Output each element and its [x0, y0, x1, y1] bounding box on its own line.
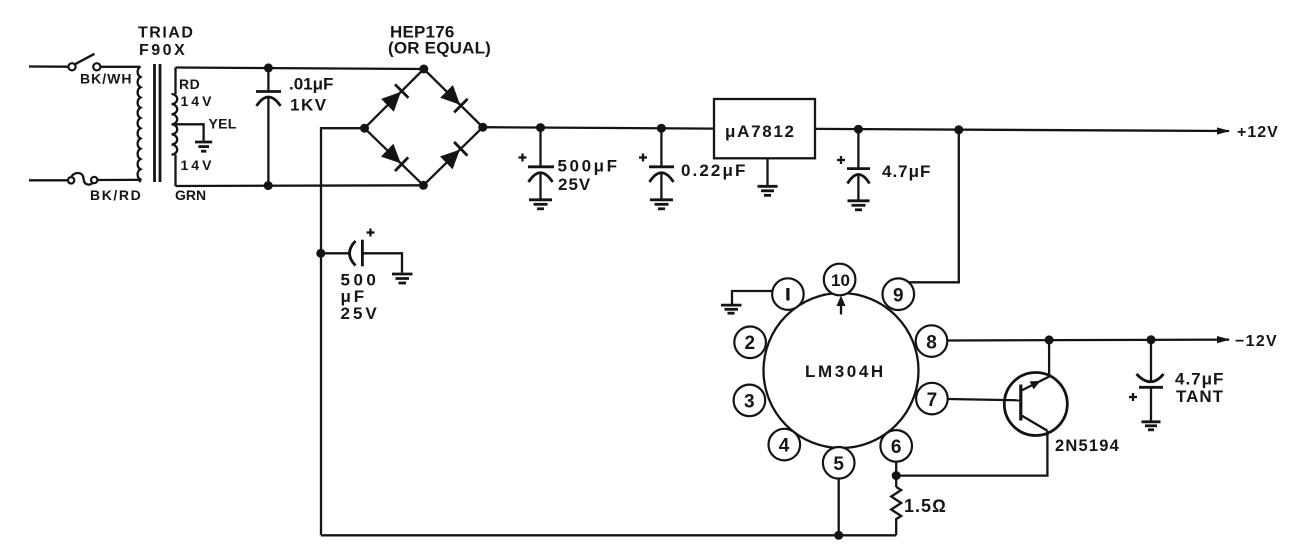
svg-text:BK/RD: BK/RD	[90, 187, 142, 203]
pin 2 circle	[734, 327, 766, 359]
transformer T1 primary winding	[138, 67, 141, 182]
capacitor C6 straight plate	[1139, 386, 1163, 389]
transformer T1 secondary top lead	[174, 68, 176, 95]
bridge edge top-right	[424, 69, 483, 127]
wire to C5	[321, 252, 350, 254]
capacitor C1 .01uF top stem	[267, 68, 269, 91]
capacitor C4 top plate	[847, 167, 870, 170]
pin 6 circle	[880, 430, 912, 462]
ground pin 1	[721, 305, 742, 313]
svg-text:2: 2	[745, 333, 756, 354]
svg-text:8: 8	[926, 332, 937, 353]
bridge node right	[478, 123, 487, 132]
fuse F1 element	[71, 173, 94, 185]
wire AC line top	[29, 65, 69, 67]
fuse F1 right bead	[91, 177, 97, 183]
junction dot C1 bottom	[264, 181, 273, 190]
svg-text:.01μF: .01μF	[289, 75, 333, 94]
capacitor C1 bottom stem	[267, 97, 269, 186]
capacitor C2 top stem	[539, 128, 541, 166]
regulator U1 uA7812 box	[714, 99, 815, 158]
svg-text:μA7812: μA7812	[725, 122, 796, 141]
svg-text:RD: RD	[179, 76, 200, 92]
junction dot C5	[316, 249, 325, 258]
wire pin 1 to ground	[732, 291, 773, 304]
svg-text:1KV: 1KV	[290, 96, 328, 115]
wire C5 to ground	[362, 253, 402, 272]
IC U2 LM304H body	[764, 293, 919, 448]
capacitor C2 bottom stem	[539, 173, 541, 199]
junction dot C4	[854, 125, 863, 134]
switch S1 right contact	[93, 63, 100, 70]
svg-text:14V: 14V	[181, 157, 215, 173]
svg-text:LM304H: LM304H	[805, 362, 886, 381]
capacitor C4 bottom stem	[857, 175, 859, 200]
capacitor C3 polarity +	[639, 154, 647, 162]
junction dot C3	[657, 124, 666, 133]
svg-text:0.22μF: 0.22μF	[681, 161, 747, 180]
wire fuse to transformer	[97, 179, 140, 181]
svg-text:4.7μF: 4.7μF	[882, 162, 931, 181]
ground C3	[650, 200, 673, 209]
wire drop to pin 9	[909, 130, 959, 282]
svg-text:500μF: 500μF	[558, 157, 620, 176]
ground C2	[529, 200, 552, 209]
junction dot C1 top	[264, 63, 273, 72]
bridge node top	[419, 65, 428, 74]
diode D4 (bottom-to-right)	[440, 142, 467, 169]
junction dot C6	[1147, 335, 1156, 344]
wire junction to Q1 emitter	[1048, 340, 1050, 376]
svg-text:BK/WH: BK/WH	[80, 71, 132, 87]
wire center tap	[175, 124, 204, 141]
fuse F1 left bead	[68, 177, 74, 183]
svg-text:10: 10	[831, 271, 850, 290]
capacitor C4 curved plate	[848, 175, 870, 184]
svg-text:4: 4	[779, 436, 790, 457]
capacitor C2 top plate	[528, 165, 554, 168]
capacitor C3 bottom stem	[660, 173, 662, 199]
svg-text:GRN: GRN	[175, 187, 206, 203]
transistor Q1 collector diagonal	[1022, 416, 1048, 431]
capacitor C1 top plate	[256, 90, 281, 93]
ground C6	[1142, 422, 1161, 430]
pin 3 circle	[734, 385, 766, 417]
wire secondary top to bridge top node	[176, 68, 424, 70]
pin 9 circle	[883, 278, 915, 310]
capacitor C1 curved plate	[257, 97, 281, 106]
bridge node bottom	[419, 181, 428, 190]
diode D1 (left-to-top)	[381, 84, 408, 111]
svg-text:25V: 25V	[558, 175, 591, 194]
transformer T1 secondary bottom lead	[174, 155, 176, 187]
pin 10 circle	[824, 264, 856, 296]
pin 1 number	[786, 288, 789, 301]
wire pin 6 down	[895, 462, 897, 487]
junction dot pin 6 node	[892, 471, 901, 480]
transistor Q1 base bar	[1019, 385, 1022, 421]
svg-text:4.7μF: 4.7μF	[1175, 370, 1224, 389]
capacitor C5 polarity +	[367, 229, 375, 237]
capacitor C3 curved plate	[650, 173, 674, 182]
diode D3 (left-to-bottom)	[381, 144, 408, 171]
capacitor C5 curved plate	[350, 241, 356, 266]
svg-text:9: 9	[893, 285, 904, 306]
svg-text:6: 6	[891, 437, 902, 458]
capacitor C6 bottom stem	[1150, 387, 1152, 421]
wire bottom rail	[321, 534, 896, 536]
transistor Q1 body circle	[1004, 373, 1067, 436]
pin 8 circle	[916, 325, 948, 357]
pin 10 arrow	[837, 296, 846, 315]
resistor R1 1.5 ohm zigzag	[891, 487, 901, 535]
svg-text:3: 3	[744, 392, 755, 413]
transistor Q1 emitter diagonal with arrow	[1022, 376, 1050, 390]
transformer core line 2	[159, 64, 162, 182]
wire +12V rail left of regulator	[483, 127, 714, 128]
svg-text:TANT: TANT	[1176, 387, 1224, 406]
+12V arrowhead	[1217, 127, 1230, 134]
capacitor C3 top plate	[649, 165, 674, 168]
svg-text:1.5Ω: 1.5Ω	[904, 496, 947, 516]
bridge edge bottom-left	[365, 128, 424, 185]
ground C4	[848, 201, 870, 210]
transformer core line 1	[153, 64, 156, 182]
bridge node left	[360, 124, 369, 133]
wire pin 8 to -12V	[947, 338, 1229, 341]
svg-text:7: 7	[927, 390, 938, 411]
svg-text:5: 5	[833, 454, 844, 475]
pin 5 circle	[823, 447, 855, 479]
wire pin 7 to transistor base	[948, 399, 1021, 400]
pin 4 circle	[769, 429, 801, 461]
capacitor C2 curved plate	[529, 173, 553, 182]
capacitor C6 curved plate	[1137, 374, 1164, 382]
svg-text:TRIAD: TRIAD	[138, 25, 194, 42]
transformer T1 secondary winding	[172, 94, 178, 155]
switch S1 blade	[75, 54, 95, 64]
junction dot bottom rail	[834, 531, 843, 540]
wire Q1 collector down and left to pin 6 node	[896, 431, 1047, 476]
capacitor C6 top stem	[1150, 340, 1152, 381]
wire +12V rail right of regulator	[815, 129, 1229, 131]
ground U1	[758, 186, 778, 195]
bridge edge bottom-right	[423, 127, 482, 185]
pin 1 circle	[772, 278, 804, 310]
wire switch to transformer	[100, 66, 140, 68]
capacitor C5 straight plate	[361, 240, 364, 267]
svg-text:−12V: −12V	[1235, 333, 1278, 350]
ground C5	[392, 274, 413, 283]
diode D2 (top-to-right)	[440, 85, 467, 112]
capacitor C2 polarity +	[519, 154, 527, 162]
capacitor C6 polarity +	[1129, 393, 1137, 401]
svg-text:(OR EQUAL): (OR EQUAL)	[388, 39, 491, 58]
svg-text:YEL: YEL	[209, 115, 237, 131]
wire bridge negative down	[321, 128, 365, 535]
bridge edge top-left	[365, 69, 424, 128]
wire AC line bottom	[29, 179, 68, 181]
regulator ground stem	[766, 158, 768, 185]
junction dot C2	[536, 123, 545, 132]
wire secondary bottom to bridge bottom node	[176, 184, 424, 187]
-12V arrowhead	[1217, 336, 1230, 343]
svg-text:2N5194: 2N5194	[1055, 437, 1120, 455]
capacitor C3 top stem	[660, 128, 662, 166]
svg-text:14V: 14V	[181, 93, 215, 109]
svg-text:+12V: +12V	[1237, 124, 1279, 141]
switch S1 left contact	[68, 63, 75, 70]
junction dot Q1 collector top	[1045, 335, 1054, 344]
svg-text:25V: 25V	[341, 304, 380, 323]
svg-text:F90X: F90X	[139, 42, 187, 59]
wire pin 5 down	[838, 479, 840, 536]
pin 7 circle	[916, 383, 948, 415]
capacitor C4 polarity +	[837, 156, 845, 164]
capacitor C4 top stem	[857, 129, 859, 168]
junction dot pin9 drop	[954, 125, 963, 134]
ground center tap	[195, 142, 212, 151]
